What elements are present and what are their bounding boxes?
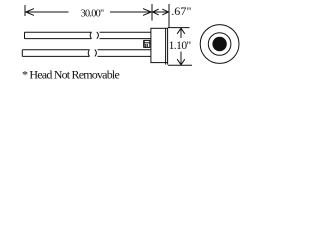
svg-text:* Head Not Removable: * Head Not Removable	[22, 68, 119, 82]
svg-text:30.00": 30.00"	[81, 9, 104, 20]
svg-text:1.10": 1.10"	[169, 40, 191, 52]
svg-text:.67": .67"	[171, 4, 191, 18]
